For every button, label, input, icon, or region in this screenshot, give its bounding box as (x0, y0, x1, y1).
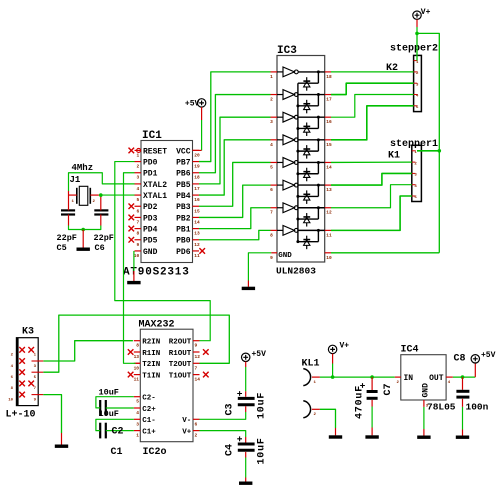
svg-text:15: 15 (326, 142, 332, 148)
wire C5/C6 bottoms to ground (69, 226, 101, 230)
svg-text:3: 3 (270, 119, 273, 125)
svg-text:OUT: OUT (429, 374, 444, 383)
svg-text:2: 2 (195, 433, 198, 439)
svg-text:4: 4 (136, 410, 139, 416)
svg-text:PD2: PD2 (143, 203, 158, 212)
svg-text:V+: V+ (421, 8, 431, 17)
svg-text:22pF: 22pF (94, 233, 114, 243)
svg-text:16: 16 (194, 197, 200, 203)
svg-text:C2+: C2+ (142, 406, 156, 414)
svg-text:PB7: PB7 (176, 158, 191, 167)
svg-text:K3: K3 (22, 327, 34, 338)
wire IC3 out5 to K1 pin2 (331, 161, 412, 163)
svg-text:6: 6 (270, 187, 273, 193)
svg-text:12: 12 (194, 242, 200, 248)
connector KL1 terminal 1 (302, 359, 320, 386)
svg-text:9: 9 (136, 242, 139, 248)
svg-text:V+: V+ (340, 342, 350, 351)
svg-text:12: 12 (195, 354, 201, 360)
junction V+ on rail (331, 375, 335, 379)
connector K3 L+-10 (6, 327, 44, 421)
connector KL1 terminal 2 (303, 401, 320, 418)
svg-text:100n: 100n (466, 402, 489, 413)
svg-text:7: 7 (195, 365, 198, 371)
svg-text:MAX232: MAX232 (139, 320, 175, 331)
junction V+ top (415, 32, 419, 36)
svg-text:V-: V- (182, 417, 191, 425)
svg-text:19: 19 (194, 164, 200, 170)
svg-text:15: 15 (194, 208, 200, 214)
wire K3 pin9 to ground (43, 395, 68, 447)
ground below C4 (239, 478, 252, 484)
wire C3 bottom to MAX232 V- (200, 406, 246, 419)
svg-text:PB3: PB3 (176, 203, 191, 212)
svg-text:PD6: PD6 (176, 248, 191, 257)
capacitor C4 10uF (200, 431, 268, 478)
svg-text:7: 7 (136, 219, 139, 225)
capacitor C6 22pF (94, 195, 114, 253)
svg-text:10uF: 10uF (257, 392, 268, 419)
svg-text:2: 2 (136, 164, 139, 170)
IC1 AT90S2313 microcontroller (123, 130, 205, 279)
svg-text:PB1: PB1 (176, 225, 191, 234)
svg-text:IC2o: IC2o (143, 447, 167, 458)
svg-text:1: 1 (136, 433, 139, 439)
svg-text:78L05: 78L05 (427, 402, 456, 413)
svg-text:17: 17 (326, 97, 332, 103)
ground below C7 (365, 428, 378, 438)
svg-text:C6: C6 (95, 243, 105, 253)
svg-text:C2-: C2- (142, 395, 156, 403)
wire crystal left pin to XTAL2 (jog) (69, 173, 135, 191)
+5V supply at IC4 output (471, 351, 496, 363)
op-amp array IC3 ULN2803 (270, 45, 332, 277)
wire crystal right pin to XTAL1 (99, 194, 135, 196)
wire +5V to IC1 VCC pin 20 (193, 107, 202, 150)
wire IC3 out4 to K2 pin5 (331, 106, 414, 140)
svg-text:C1: C1 (111, 447, 123, 458)
svg-text:14: 14 (195, 377, 201, 383)
svg-text:11: 11 (134, 377, 140, 383)
svg-text:RESET: RESET (143, 147, 167, 156)
svg-text:C4: C4 (225, 444, 236, 456)
svg-text:L+-10: L+-10 (6, 410, 36, 421)
svg-text:GND: GND (421, 383, 430, 398)
wire IC1 PD0 to MAX232 R2OUT (115, 162, 210, 341)
+5V supply symbol at IC1 VCC (185, 99, 206, 109)
+5V supply at C3 (242, 350, 267, 361)
svg-text:6: 6 (136, 208, 139, 214)
svg-text:C5: C5 (57, 243, 67, 253)
svg-text:stepper1: stepper1 (390, 139, 438, 150)
svg-text:PD0: PD0 (143, 158, 158, 167)
svg-text:4: 4 (270, 142, 273, 148)
svg-text:C1-: C1- (142, 417, 156, 425)
svg-text:2: 2 (270, 97, 273, 103)
wire IC4 GND to ground (417, 407, 430, 437)
svg-text:10uF: 10uF (257, 437, 268, 464)
svg-text:PD5: PD5 (143, 237, 158, 246)
junction at ground node (81, 228, 85, 232)
svg-text:3: 3 (136, 175, 139, 181)
svg-text:1: 1 (136, 152, 139, 158)
svg-text:3: 3 (136, 421, 139, 427)
svg-text:KL1: KL1 (302, 359, 320, 370)
svg-text:T1OUT: T1OUT (169, 373, 192, 381)
svg-text:XTAL1: XTAL1 (143, 192, 167, 201)
svg-text:V+: V+ (182, 429, 192, 437)
wire IC1 PB2 to IC3 input 6 (199, 185, 271, 217)
capacitor C8 100n (454, 354, 489, 430)
wire IC1 PB6 to IC3 input 2 (199, 95, 271, 173)
wire MAX232 T2OUT to K3 pin5 (43, 315, 229, 372)
capacitor C2 10uF (96, 388, 134, 416)
svg-text:10: 10 (134, 365, 140, 371)
wire KL1 terminal 2 to ground (320, 409, 342, 437)
svg-text:PB4: PB4 (176, 192, 191, 201)
wire IC3 out8 to K1 pin5 (331, 196, 412, 230)
svg-text:PD1: PD1 (143, 170, 158, 179)
svg-text:T2OUT: T2OUT (169, 361, 192, 369)
svg-text:10: 10 (8, 398, 13, 402)
svg-text:8: 8 (136, 231, 139, 237)
wire K3 pin3 to MAX232 R2IN (43, 341, 133, 361)
junction C8 on output rail (461, 375, 465, 379)
wire IC3 out3 to K2 pin4 (331, 95, 414, 118)
svg-text:13: 13 (326, 187, 332, 193)
svg-text:AT90S2313: AT90S2313 (123, 267, 190, 279)
svg-text:8: 8 (270, 232, 273, 238)
svg-text:4: 4 (136, 186, 139, 192)
svg-text:C7: C7 (383, 383, 394, 395)
svg-text:J1: J1 (70, 175, 81, 185)
svg-text:T1IN: T1IN (142, 373, 160, 381)
svg-text:16: 16 (326, 119, 332, 125)
wire IC1 PB4 to IC3 input 4 (199, 140, 271, 195)
svg-text:+5V: +5V (481, 351, 496, 360)
svg-text:5: 5 (136, 197, 139, 203)
svg-text:7: 7 (270, 210, 273, 216)
IC2 MAX232 (128, 320, 209, 459)
svg-text:14: 14 (194, 219, 200, 225)
svg-text:13: 13 (134, 354, 140, 360)
svg-text:+5V: +5V (252, 350, 267, 359)
wire IC3 out1 to K2 pin2 (331, 71, 414, 73)
svg-text:18: 18 (194, 175, 200, 181)
svg-text:PD3: PD3 (143, 214, 158, 223)
svg-text:T2IN: T2IN (142, 361, 160, 369)
svg-text:8: 8 (136, 343, 139, 349)
capacitor C7 470uF (355, 377, 395, 427)
svg-text:PB6: PB6 (176, 170, 191, 179)
wire IC1 PB3 to IC3 input 5 (199, 162, 271, 206)
wire IC3 out7 to K1 pin4 (331, 185, 412, 208)
svg-text:IC3: IC3 (277, 45, 297, 57)
capacitor C5 22pF (57, 191, 77, 253)
svg-text:14: 14 (326, 164, 332, 170)
svg-text:5: 5 (270, 164, 273, 170)
svg-text:PB2: PB2 (176, 214, 191, 223)
wire V+ rail (331, 19, 439, 252)
ground below C8 (456, 430, 469, 438)
svg-text:11: 11 (194, 253, 200, 259)
svg-text:C8: C8 (454, 354, 466, 365)
wire V+ to input rail (332, 354, 334, 378)
wire IC3 out6 to K1 pin3 (331, 173, 412, 185)
IC4 78L05 regulator (395, 345, 456, 413)
svg-text:11: 11 (326, 232, 332, 238)
svg-text:C2: C2 (112, 427, 124, 438)
wire IC1 PB0 to IC3 input 8 (199, 230, 271, 239)
svg-text:10: 10 (326, 255, 332, 261)
svg-text:PB0: PB0 (176, 237, 191, 246)
svg-text:4Mhz: 4Mhz (72, 163, 94, 173)
svg-text:10uF: 10uF (99, 409, 119, 419)
wire IC3 GND pin to ground (242, 253, 272, 289)
svg-text:9: 9 (195, 343, 198, 349)
wire IC1 PB7 to IC3 input 1 (199, 72, 271, 162)
wire IC4 OUT to +5V (453, 363, 475, 377)
svg-text:R2OUT: R2OUT (169, 339, 192, 347)
crystal J1 4Mhz (69, 163, 99, 205)
svg-text:C3: C3 (225, 403, 236, 415)
svg-text:IN: IN (404, 374, 414, 383)
svg-text:22pF: 22pF (57, 233, 77, 243)
svg-text:stepper2: stepper2 (390, 44, 438, 55)
svg-text:10uF: 10uF (99, 388, 119, 398)
svg-text:R1OUT: R1OUT (169, 350, 192, 358)
svg-text:10: 10 (134, 253, 140, 259)
svg-text:18: 18 (326, 74, 332, 80)
ground below IC1 GND pin 10 (127, 251, 140, 283)
svg-text:470uF: 470uF (355, 385, 366, 419)
capacitor C1 10uF (96, 409, 134, 458)
svg-text:PB5: PB5 (176, 181, 191, 190)
svg-text:XTAL2: XTAL2 (143, 181, 167, 190)
svg-text:K1: K1 (388, 151, 400, 162)
svg-text:1: 1 (270, 74, 273, 80)
wire IC1 PB5 to IC3 input 3 (199, 117, 271, 184)
junction C7 on rail (370, 375, 374, 379)
wire IC1 PD1 to MAX232 T2IN (124, 173, 141, 364)
svg-text:PD4: PD4 (143, 225, 158, 234)
svg-text:GND: GND (143, 248, 158, 257)
svg-text:6: 6 (195, 421, 198, 427)
svg-text:9: 9 (270, 255, 273, 261)
wire IC1 PB1 to IC3 input 7 (199, 208, 271, 229)
svg-text:17: 17 (194, 186, 200, 192)
connector K2 stepper2 (386, 44, 438, 112)
V+ supply symbol top right (413, 8, 431, 20)
svg-text:IC1: IC1 (142, 130, 162, 142)
wire IC3 out2 to K2 pin3 (331, 83, 414, 94)
svg-text:ULN2803: ULN2803 (276, 266, 316, 277)
junction V+ at K1 pin1 (438, 149, 442, 153)
svg-text:12: 12 (326, 210, 332, 216)
svg-text:GND: GND (278, 252, 292, 260)
svg-text:5: 5 (136, 399, 139, 405)
wire KL1 to IC4 IN (320, 376, 395, 378)
svg-text:VCC: VCC (176, 147, 191, 156)
svg-text:R1IN: R1IN (142, 350, 160, 358)
V+ supply at KL1 (328, 342, 349, 354)
capacitor C3 10uF (225, 362, 268, 419)
svg-text:C1+: C1+ (142, 429, 156, 437)
svg-text:20: 20 (194, 152, 200, 158)
ground below crystal caps (77, 230, 90, 250)
svg-text:IC4: IC4 (401, 345, 419, 356)
svg-text:R2IN: R2IN (142, 339, 160, 347)
node C6 top junction (99, 193, 103, 197)
connector K1 stepper1 (388, 139, 438, 202)
svg-text:13: 13 (194, 231, 200, 237)
